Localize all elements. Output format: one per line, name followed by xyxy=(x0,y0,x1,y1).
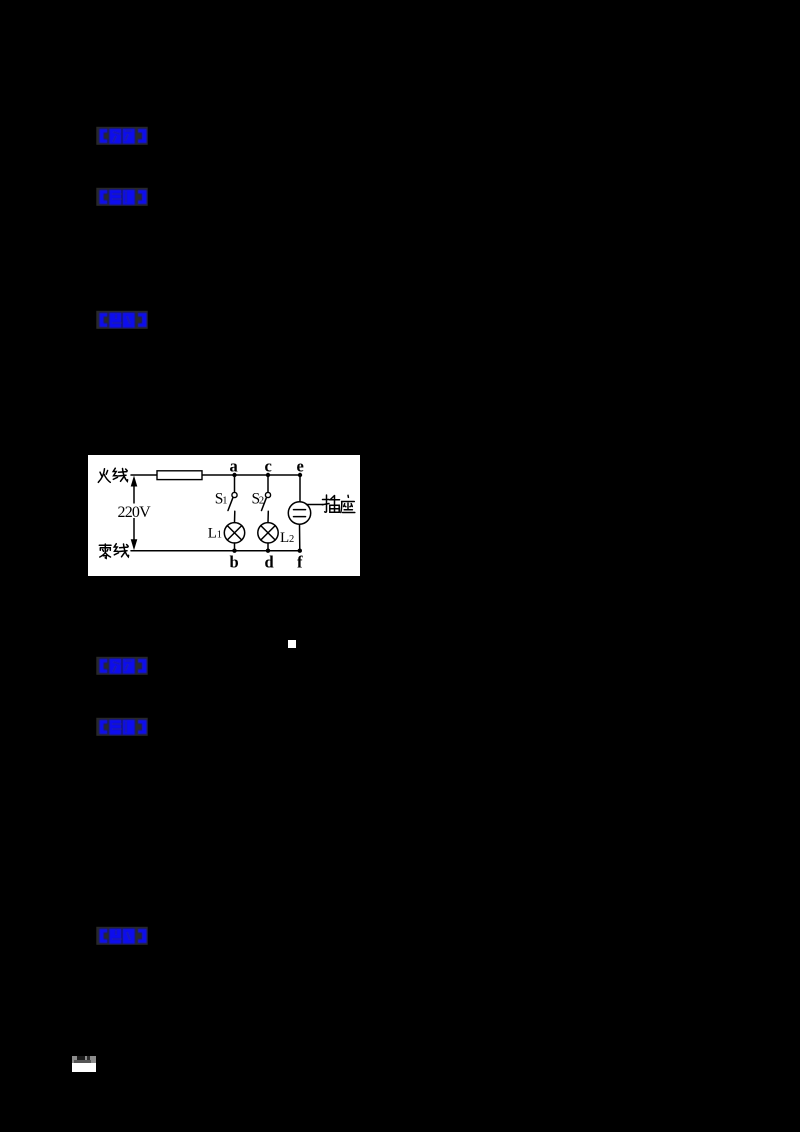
svg-text:L: L xyxy=(208,526,217,542)
svg-text:L: L xyxy=(280,530,289,546)
svg-text:2: 2 xyxy=(289,534,294,545)
svg-text:d: d xyxy=(265,553,274,572)
svg-text:1: 1 xyxy=(217,530,222,541)
svg-text:f: f xyxy=(297,553,303,572)
svg-text:1: 1 xyxy=(222,495,227,506)
svg-text:c: c xyxy=(265,457,272,476)
svg-text:b: b xyxy=(230,553,239,572)
svg-text:e: e xyxy=(297,457,304,476)
svg-text:a: a xyxy=(230,457,238,476)
svg-text:2: 2 xyxy=(259,495,264,506)
svg-text:220V: 220V xyxy=(118,504,152,521)
